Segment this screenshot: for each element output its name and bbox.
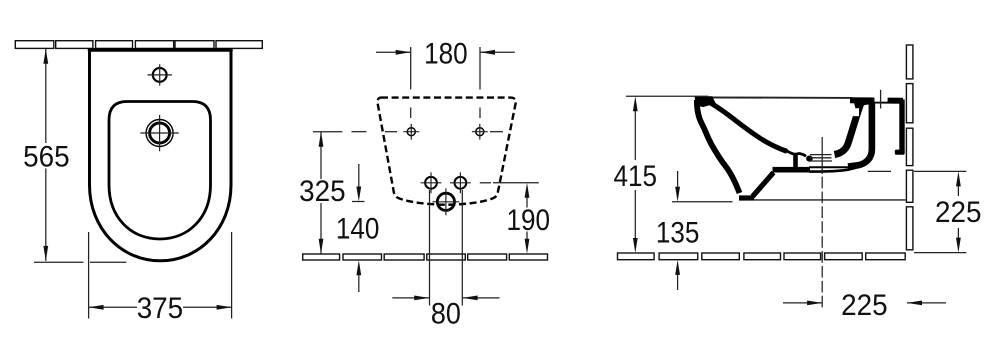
bidet outer outline (top view) <box>88 50 233 261</box>
svg-text:225: 225 <box>841 289 888 322</box>
svg-text:375: 375 <box>137 292 184 325</box>
deck band junction <box>853 99 875 109</box>
svg-text:80: 80 <box>431 298 461 331</box>
bidet inner bowl (top view) <box>109 102 211 240</box>
svg-text:190: 190 <box>507 204 551 237</box>
outlet pipe <box>773 165 862 172</box>
svg-text:180: 180 <box>424 37 468 70</box>
dimension 375 <box>89 232 232 325</box>
dimension 325 <box>299 132 346 254</box>
drain crosshair (top view) <box>140 115 178 151</box>
fixing holes pair (rear view) <box>421 172 471 193</box>
floor tiles (rear view) <box>303 254 548 260</box>
dimension 135 <box>656 171 733 290</box>
floor tiles (side view) <box>618 253 906 260</box>
deck / faucet platform (side view) <box>850 97 903 102</box>
bidet bottom edge (side view) <box>754 199 906 201</box>
wall tiles top view <box>15 41 262 49</box>
mounting hole left (rear view) <box>403 124 419 140</box>
centerline mounting holes y=131.7 <box>313 131 503 133</box>
faucet hole crosshair (top view) <box>148 64 172 85</box>
drain column and weir detail <box>786 151 813 171</box>
dimension 565 <box>23 49 126 262</box>
dimension 225 right <box>914 171 982 252</box>
back mounting bar (side view) <box>895 100 905 155</box>
bidet front section (side view cut) <box>695 96 774 198</box>
mounting hole right (rear view) <box>472 124 488 140</box>
dashed body outline (rear view) <box>377 98 515 205</box>
dimension 80 <box>392 190 499 331</box>
wall tiles (side view) <box>906 45 913 250</box>
drain ladder lines <box>810 155 832 161</box>
dimension 180 <box>376 37 515 118</box>
chamber inner wall band <box>848 103 872 167</box>
dimension 140 <box>336 164 380 292</box>
drain circle (rear view) <box>432 188 459 215</box>
svg-text:565: 565 <box>23 140 70 173</box>
dimension 415 <box>614 96 709 253</box>
supply connection line <box>868 170 891 172</box>
svg-text:225: 225 <box>935 196 982 229</box>
bowl inner curve (side view) <box>705 100 787 151</box>
bowl back wall band <box>835 103 862 155</box>
bidet top rim line (side view) <box>696 96 852 99</box>
faucet centerline <box>880 90 882 109</box>
svg-text:135: 135 <box>656 217 700 250</box>
svg-text:415: 415 <box>614 160 658 193</box>
dimension 190 <box>480 183 550 254</box>
svg-text:140: 140 <box>336 213 380 246</box>
drain centerline (dashed) <box>821 137 823 310</box>
dimension 225 bottom <box>783 289 946 322</box>
svg-text:325: 325 <box>299 175 346 208</box>
